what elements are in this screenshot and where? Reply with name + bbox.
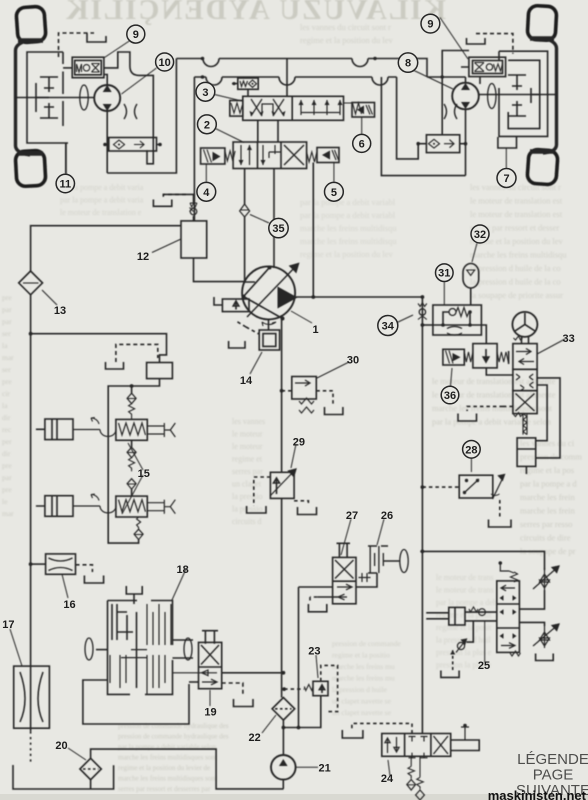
svg-text:serres par: serres par [232, 467, 263, 476]
svg-text:30: 30 [347, 354, 359, 366]
svg-text:pre: pre [2, 485, 12, 494]
svg-text:per: per [2, 437, 12, 446]
svg-text:31: 31 [438, 268, 450, 280]
svg-text:21: 21 [318, 763, 330, 775]
svg-text:marche les frein: marche les frein [520, 492, 575, 502]
svg-text:PAGE: PAGE [533, 767, 574, 784]
svg-text:par: par [2, 473, 12, 482]
svg-text:27: 27 [346, 510, 358, 522]
svg-text:la: la [2, 341, 8, 350]
svg-text:24: 24 [381, 773, 394, 785]
svg-text:les vannes: les vannes [232, 417, 265, 426]
svg-text:la pression d huile de la co: la pression d huile de la co [470, 277, 561, 287]
svg-text:un clapet: un clapet [232, 480, 262, 489]
svg-text:mar: mar [2, 509, 14, 518]
svg-text:la pression d huile: la pression d huile [332, 685, 387, 694]
svg-text:28: 28 [465, 444, 477, 456]
svg-text:le moteur de trans: le moteur de trans [436, 586, 494, 595]
svg-text:les vannes du circuit sont r: les vannes du circuit sont r [300, 22, 391, 32]
svg-text:le: le [2, 497, 8, 506]
svg-text:le moteur de trans: le moteur de trans [436, 573, 494, 582]
svg-text:ser: ser [2, 329, 11, 338]
svg-text:1: 1 [312, 324, 318, 336]
svg-text:serres par resso: serres par resso [520, 519, 572, 529]
svg-text:rec: rec [2, 425, 12, 434]
svg-text:dir: dir [2, 449, 11, 458]
svg-text:le moteur: le moteur [232, 442, 263, 451]
svg-text:par: par [2, 305, 12, 314]
svg-text:35: 35 [272, 223, 284, 235]
svg-text:la pression d huile de la co: la pression d huile de la co [470, 263, 561, 273]
svg-text:13: 13 [54, 305, 66, 317]
svg-text:pre: pre [2, 377, 12, 386]
svg-text:5: 5 [331, 187, 337, 199]
svg-text:33: 33 [562, 333, 574, 345]
svg-text:3: 3 [202, 87, 208, 99]
svg-text:16: 16 [63, 599, 75, 611]
svg-text:un clapet navette se: un clapet navette se [332, 708, 392, 717]
svg-text:26: 26 [381, 510, 393, 522]
svg-text:9: 9 [133, 29, 139, 41]
svg-text:la: la [2, 401, 8, 410]
svg-text:regime et: regime et [232, 455, 263, 464]
svg-text:marche les freins multidisques: marche les freins multidisques sont [118, 775, 217, 783]
svg-text:le moteur de translation est: le moteur de translation est [470, 196, 563, 206]
svg-text:marche les freins multidisqu: marche les freins multidisqu [300, 223, 397, 233]
svg-text:25: 25 [478, 660, 490, 672]
svg-text:par la pompe a d: par la pompe a d [520, 479, 577, 489]
svg-text:pression de commande: pression de commande [332, 639, 401, 648]
svg-text:9: 9 [427, 19, 433, 31]
svg-text:par la pompe a debit varia: par la pompe a debit varia [60, 196, 144, 205]
svg-text:2: 2 [204, 119, 210, 131]
svg-text:marche les freins mu: marche les freins mu [332, 662, 395, 671]
svg-text:marche les freins mu: marche les freins mu [332, 674, 395, 683]
svg-text:marche les frein: marche les frein [520, 506, 575, 516]
svg-text:dir: dir [2, 413, 11, 422]
svg-text:marche les freins multidisqu: marche les freins multidisqu [470, 250, 567, 260]
svg-text:le moteur de translation e: le moteur de translation e [60, 208, 142, 217]
svg-text:6: 6 [359, 138, 365, 150]
svg-text:maskinisten.net: maskinisten.net [488, 788, 587, 800]
svg-text:10: 10 [158, 57, 170, 69]
svg-text:12: 12 [137, 251, 149, 263]
svg-text:ser: ser [2, 365, 11, 374]
svg-text:regime et la position du levie: regime et la position du levier de [118, 764, 210, 772]
svg-text:4: 4 [203, 187, 210, 199]
svg-text:circuits d: circuits d [232, 517, 262, 526]
svg-text:par la pompe a debit variabl: par la pompe a debit variabl [300, 197, 396, 207]
svg-text:22: 22 [248, 732, 260, 744]
svg-text:le moteur de translation est: le moteur de translation est [470, 209, 563, 219]
svg-text:11: 11 [59, 179, 71, 191]
svg-text:un clapet navette se: un clapet navette se [332, 697, 392, 706]
svg-text:par la pompe a debit variabl: par la pompe a debit variabl [300, 210, 396, 220]
svg-text:circuits de dire: circuits de dire [520, 533, 571, 543]
svg-text:19: 19 [204, 707, 216, 719]
svg-text:29: 29 [293, 436, 305, 448]
svg-text:par la pompe a deb: par la pompe a deb [436, 598, 497, 607]
svg-text:LÉGENDE: LÉGENDE [517, 751, 588, 768]
svg-text:36: 36 [444, 390, 456, 402]
svg-text:marche les freins multidisques: marche les freins multidisques sont [118, 754, 217, 762]
svg-text:34: 34 [382, 321, 395, 333]
svg-text:regime et la position du lev: regime et la position du lev [300, 35, 394, 45]
svg-text:pression de comm: pression de comm [520, 452, 582, 462]
svg-text:pression la plus e: pression la plus e [436, 648, 492, 657]
svg-text:marche les freins multidisqu: marche les freins multidisqu [300, 236, 397, 246]
svg-text:cir: cir [2, 389, 10, 398]
svg-text:pression de commande hydrauliq: pression de commande hydraulique des [118, 733, 229, 741]
svg-text:mar: mar [2, 353, 14, 362]
svg-text:pre: pre [2, 461, 12, 470]
svg-text:pre: pre [2, 293, 12, 302]
svg-text:20: 20 [55, 740, 67, 752]
svg-text:7: 7 [503, 173, 509, 185]
svg-text:14: 14 [240, 375, 253, 387]
svg-text:par: par [2, 317, 12, 326]
svg-text:regime et la positio: regime et la positio [332, 651, 390, 660]
svg-text:serres par ressort et desserre: serres par ressort et desserres par [118, 785, 211, 793]
svg-text:la pressio: la pressio [232, 492, 262, 501]
svg-text:le moteur: le moteur [232, 430, 263, 439]
svg-text:par la pompe a debit variable: par la pompe a debit variable selon [432, 417, 552, 427]
svg-text:23: 23 [308, 645, 320, 657]
svg-text:la soupape de priorite assur: la soupape de priorite assur [470, 290, 563, 300]
svg-text:17: 17 [2, 619, 14, 631]
svg-text:32: 32 [474, 229, 486, 241]
svg-text:18: 18 [176, 564, 188, 576]
svg-text:15: 15 [138, 468, 150, 480]
svg-text:8: 8 [405, 58, 411, 70]
